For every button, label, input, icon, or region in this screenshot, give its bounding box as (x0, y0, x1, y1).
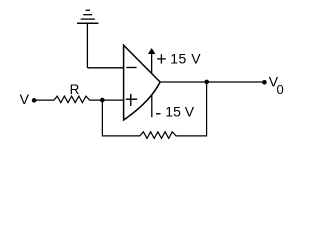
svg-text:0: 0 (277, 82, 284, 97)
svg-text:V: V (20, 91, 30, 107)
svg-text:15 V: 15 V (170, 51, 201, 67)
svg-text:15 V: 15 V (165, 104, 194, 120)
svg-text:R: R (70, 82, 80, 97)
